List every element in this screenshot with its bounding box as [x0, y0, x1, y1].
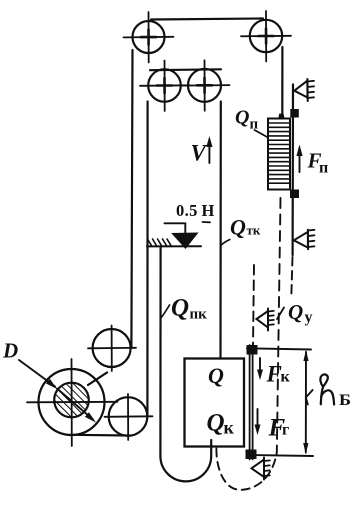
guide shoe top (black square) — [247, 346, 257, 355]
svg-text:п: п — [250, 117, 259, 133]
dashed lower continuation of counterweight rail — [291, 257, 292, 297]
svg-text:п: п — [319, 160, 328, 177]
leader for h_B — [306, 390, 313, 405]
rail bracket support (Q_y) — [257, 309, 274, 331]
svg-text:Q: Q — [230, 215, 246, 240]
pulley P4 middle-right — [180, 60, 230, 111]
lower deflector sheave — [105, 394, 153, 440]
dimension line bottom (at lower shoe) — [250, 455, 313, 456]
dashed travelling-cable loop — [216, 449, 276, 490]
svg-text:Q: Q — [235, 107, 249, 129]
svg-text:к: к — [224, 418, 235, 438]
pulley P1 top-left — [124, 12, 174, 63]
cab guide rail (double line) — [250, 345, 253, 460]
leader for Q_y — [277, 308, 284, 320]
dimension line top (at upper shoe) — [247, 348, 311, 349]
bottom support bracket under cab rail — [252, 458, 270, 480]
wall bracket lower (counterweight rail) — [294, 230, 315, 249]
svg-text:Б: Б — [339, 392, 351, 409]
svg-text:Q: Q — [171, 295, 189, 322]
svg-text:F: F — [266, 362, 282, 387]
svg-text:к: к — [281, 369, 291, 386]
anchor at 0.5H with hatching — [147, 239, 201, 246]
label 0.5H level mark — [165, 222, 211, 249]
wire: compensating rope from anchor down — [159, 248, 161, 456]
wire: rope from upper deflector to sheave — [88, 373, 107, 386]
cab rectangle — [185, 359, 245, 447]
label h (hand-drawn) — [320, 374, 327, 404]
wire: top rope between top pulleys — [151, 19, 263, 20]
guide shoe bottom (black square) — [246, 450, 256, 459]
svg-text:0.5 H: 0.5 H — [176, 201, 215, 220]
svg-text:пк: пк — [190, 307, 208, 323]
leader for Q_tk — [221, 240, 230, 246]
wire: rope from P1 down to upper deflector sheave — [131, 50, 132, 348]
counterweight guide shoe bottom (black square) — [291, 190, 299, 198]
F_g down arrow — [255, 409, 261, 435]
counterweight block with ladder hatching — [268, 119, 290, 190]
dashed upper continuation of cab rail — [253, 265, 254, 345]
svg-text:Q: Q — [207, 410, 225, 437]
pulley P2 top-right — [241, 11, 291, 62]
svg-text:тк: тк — [247, 223, 261, 238]
dimension h_B vertical with arrows — [303, 350, 308, 455]
wire: rope from P4 down to cab top — [219, 102, 222, 359]
counterweight guide shoe top (black square) — [291, 110, 299, 118]
wall bracket top (counterweight rail) — [294, 79, 314, 101]
svg-text:у: у — [305, 309, 313, 326]
label V with up arrow — [206, 136, 212, 163]
F_p up arrow — [296, 145, 302, 173]
wire: rope over middle pulleys P3 P4 — [150, 68, 221, 71]
wire: rope under drive sheave to lower deflector — [72, 434, 131, 437]
counterweight guide rail — [292, 85, 295, 256]
svg-text:г: г — [282, 422, 289, 439]
D leader with arrows — [19, 360, 96, 423]
wire: rope from P2 down to counterweight — [281, 47, 283, 118]
svg-text:Q: Q — [288, 300, 303, 324]
svg-text:Q: Q — [208, 363, 224, 388]
rope hitch at counterweight top — [278, 114, 284, 120]
leader for Q_p — [255, 130, 269, 138]
wire: U-loop of compensating rope up to cab bottom — [160, 440, 211, 481]
F_k down arrow — [257, 358, 263, 380]
wire: rope from P3 down to lower deflector sheave — [146, 102, 148, 417]
leader for Q_pk — [160, 305, 169, 319]
svg-text:V: V — [191, 141, 208, 166]
svg-text:D: D — [2, 339, 18, 363]
dashed travel centre line of counterweight — [277, 198, 281, 453]
pulley P3 middle-left — [140, 61, 190, 112]
drive sheave (traction) — [27, 359, 118, 446]
upper deflector sheave — [88, 326, 136, 372]
